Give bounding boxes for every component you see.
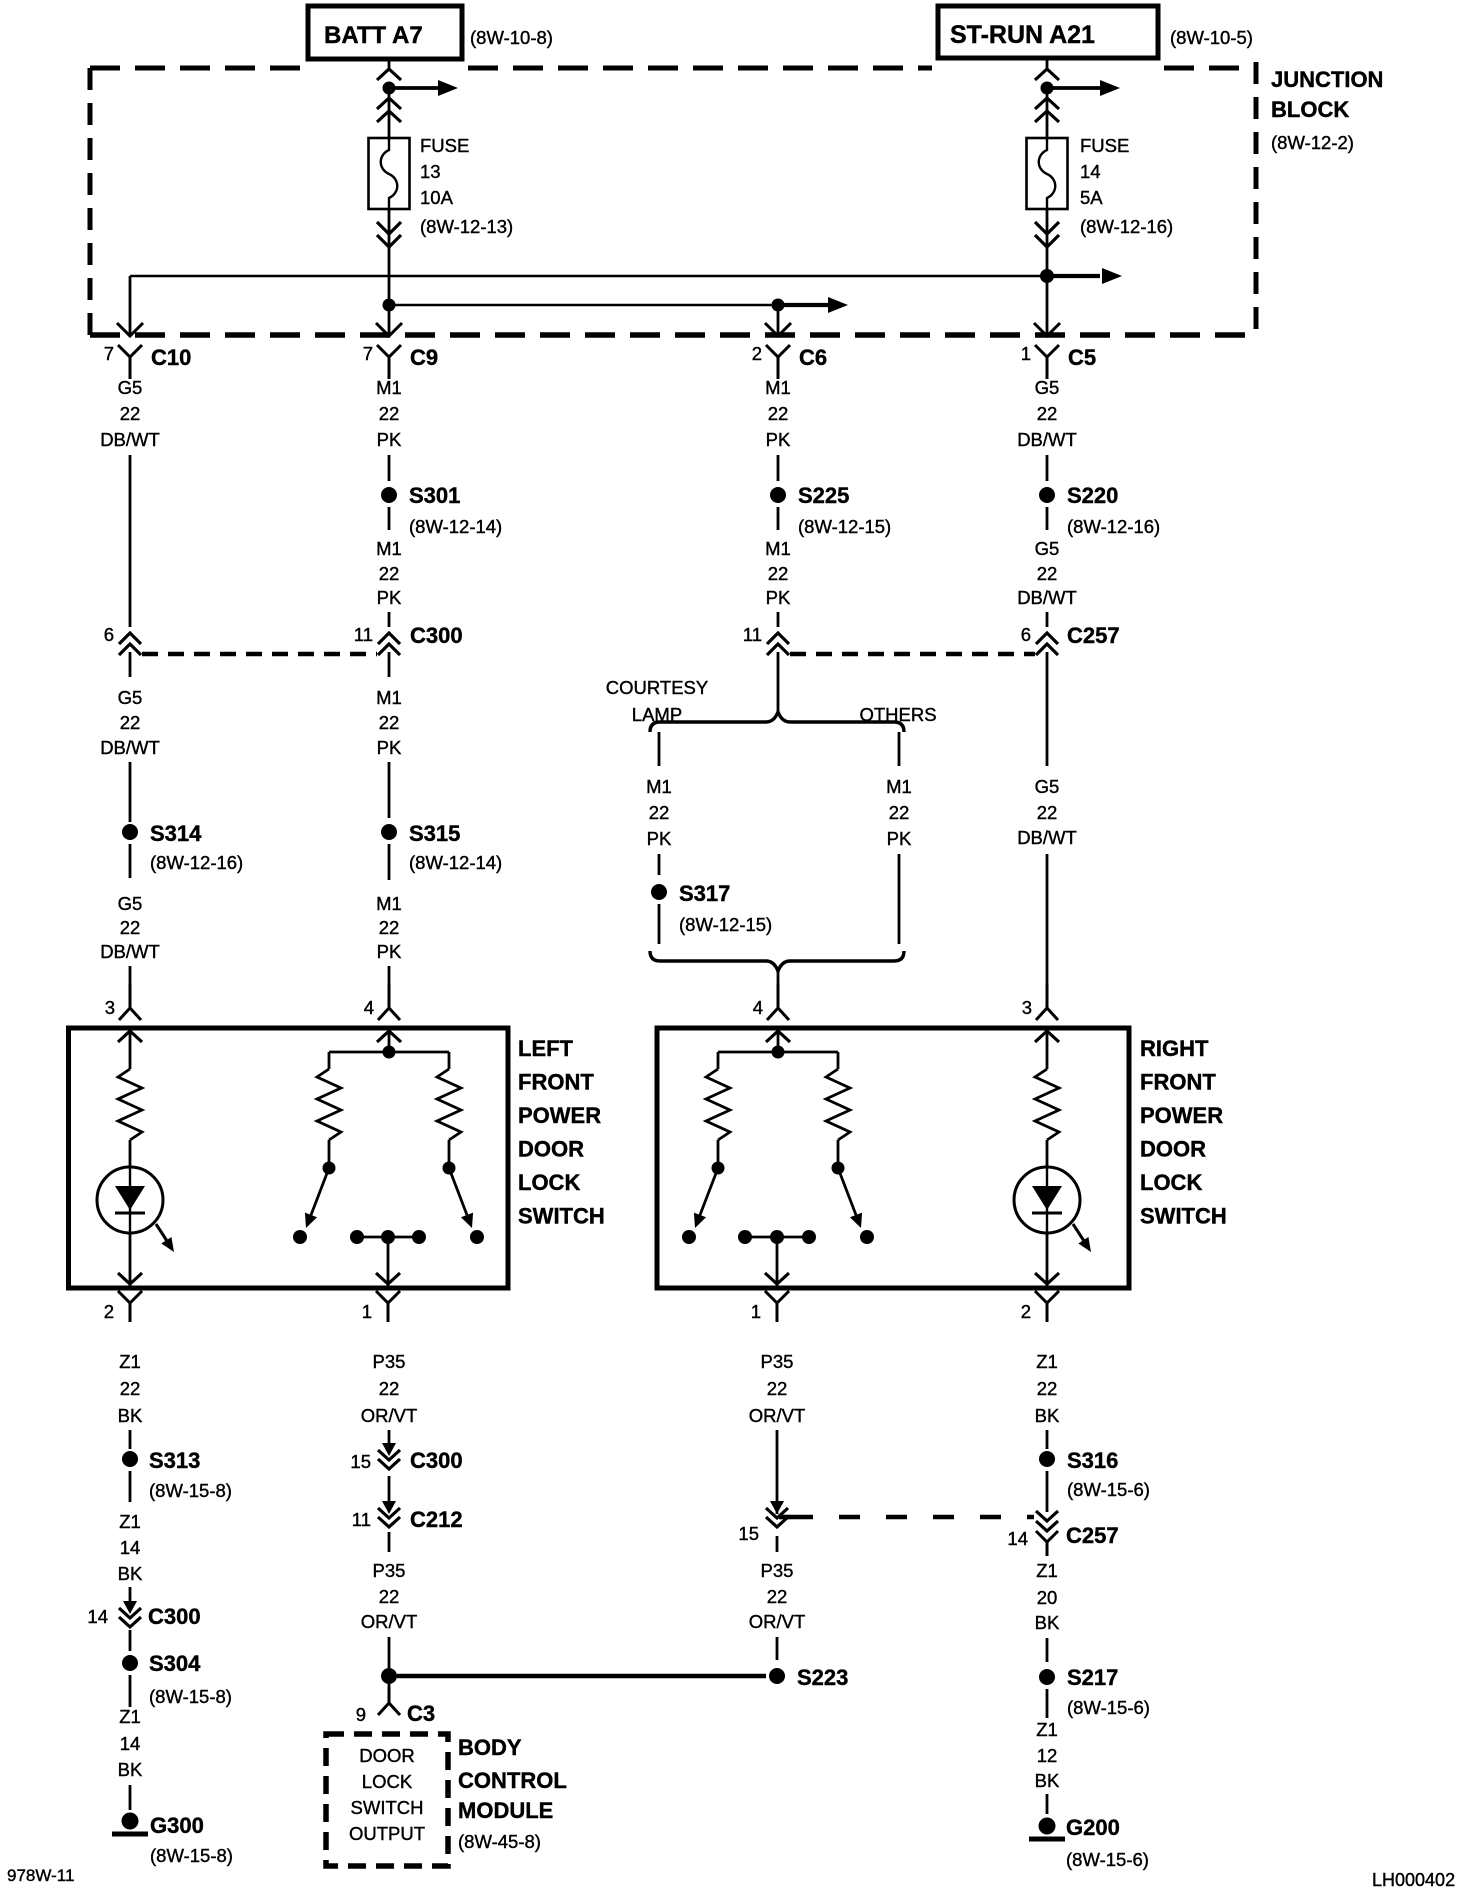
svg-text:G5: G5 bbox=[1035, 377, 1060, 398]
svg-text:BATT A7: BATT A7 bbox=[324, 22, 423, 49]
svg-text:OR/VT: OR/VT bbox=[361, 1405, 418, 1426]
svg-text:S217: S217 bbox=[1067, 1665, 1118, 1690]
label COURTESY LAMP bbox=[606, 677, 708, 725]
feed line y276 from col A to node D2 bbox=[130, 275, 1047, 278]
wire to node BCM bbox=[388, 1637, 391, 1668]
wire fuse 14 down to node D2 bbox=[1046, 209, 1049, 276]
svg-text:4: 4 bbox=[753, 997, 763, 1018]
svg-text:G5: G5 bbox=[118, 893, 143, 914]
svg-text:22: 22 bbox=[649, 802, 670, 823]
svg-text:(8W-15-8): (8W-15-8) bbox=[150, 1845, 233, 1866]
wire to connector C300-11 bbox=[388, 612, 391, 627]
ground G300 bbox=[112, 1813, 233, 1867]
svg-text:G5: G5 bbox=[1035, 776, 1060, 797]
svg-text:P35: P35 bbox=[761, 1560, 794, 1581]
splice S313 bbox=[122, 1451, 138, 1467]
connector C6 pin 2 bbox=[752, 343, 827, 379]
contact dot far-left right box bbox=[682, 1230, 696, 1244]
door lock switch output label bbox=[349, 1745, 425, 1844]
resistor lamp left box bbox=[118, 1069, 142, 1140]
switch left resistor branch right box bbox=[717, 1052, 720, 1069]
wire S313 down bbox=[129, 1471, 132, 1502]
wire col B down to C9 bbox=[388, 305, 391, 335]
left front power door lock switch box bbox=[69, 1028, 509, 1288]
wire to pivot right right box bbox=[837, 1140, 840, 1163]
svg-text:POWER: POWER bbox=[518, 1103, 601, 1128]
chevron into junction block col B bbox=[377, 69, 401, 80]
switch node dot left box bbox=[383, 1046, 396, 1059]
pin 3 connector left box bbox=[105, 984, 141, 1020]
connector C9 pin 7 bbox=[363, 343, 438, 379]
arrowhead into C10 bbox=[117, 323, 143, 336]
wire node D1 to fuse 14 bbox=[1046, 88, 1049, 138]
svg-text:PK: PK bbox=[647, 828, 672, 849]
svg-text:C6: C6 bbox=[799, 345, 827, 370]
wire C212 down bbox=[388, 1532, 391, 1552]
chevron pin1 inside right box bbox=[765, 1273, 789, 1284]
pivot dot right right box bbox=[832, 1162, 845, 1175]
wire to connector 11 bbox=[777, 612, 780, 627]
wire to connector C300-14 bbox=[129, 1587, 132, 1603]
resistor lamp right box bbox=[1035, 1069, 1059, 1140]
svg-text:(8W-12-16): (8W-12-16) bbox=[1067, 516, 1160, 537]
chevron pin4 inside left box bbox=[377, 1031, 401, 1042]
wire connector 15 down bbox=[776, 1536, 779, 1552]
svg-text:C10: C10 bbox=[151, 345, 191, 370]
svg-text:22: 22 bbox=[767, 1378, 788, 1399]
wire to pivot right bbox=[448, 1140, 451, 1163]
branch brace top bbox=[650, 712, 904, 732]
wire S220 down bbox=[1046, 507, 1049, 530]
svg-text:(8W-12-15): (8W-12-15) bbox=[679, 914, 772, 935]
svg-text:22: 22 bbox=[1037, 563, 1058, 584]
wire resistor to lamp bbox=[129, 1140, 132, 1167]
connector 11 col C bbox=[743, 624, 789, 655]
splice S223 bbox=[769, 1668, 785, 1684]
svg-text:22: 22 bbox=[1037, 403, 1058, 424]
wire to splice S217 bbox=[1046, 1638, 1049, 1662]
wire S314 down bbox=[129, 844, 132, 878]
wire pin2 right box to splice S316 bbox=[1046, 1430, 1049, 1449]
wire C10 to connector 6 bbox=[129, 455, 132, 627]
wire node BCM to C3 bbox=[388, 1684, 391, 1703]
connector 15 of C300 bottom bbox=[350, 1443, 462, 1473]
svg-text:(8W-10-5): (8W-10-5) bbox=[1170, 27, 1253, 48]
svg-text:DOOR: DOOR bbox=[518, 1137, 584, 1162]
svg-text:PK: PK bbox=[766, 429, 791, 450]
svg-text:5A: 5A bbox=[1080, 187, 1103, 208]
svg-text:DB/WT: DB/WT bbox=[100, 429, 160, 450]
node D2 dot bbox=[1040, 269, 1054, 283]
svg-text:6: 6 bbox=[1021, 624, 1031, 645]
svg-text:1: 1 bbox=[1021, 343, 1031, 364]
svg-text:S223: S223 bbox=[797, 1665, 848, 1690]
centre contact row right box bbox=[738, 1230, 816, 1244]
resistor switch-left bbox=[317, 1069, 341, 1140]
svg-text:2: 2 bbox=[104, 1301, 114, 1322]
wire branch merge to pin 4 bbox=[777, 971, 780, 1007]
fuse 13 labels bbox=[420, 135, 513, 237]
svg-text:LOCK: LOCK bbox=[1140, 1170, 1202, 1195]
connector 6 of C257 bbox=[1021, 623, 1120, 655]
svg-text:G300: G300 bbox=[150, 1813, 204, 1838]
svg-text:FUSE: FUSE bbox=[420, 135, 469, 156]
svg-text:ST-RUN A21: ST-RUN A21 bbox=[950, 21, 1095, 49]
svg-text:(8W-12-2): (8W-12-2) bbox=[1271, 132, 1354, 153]
svg-text:BK: BK bbox=[118, 1563, 143, 1584]
resistor switch-right bbox=[437, 1069, 461, 1140]
wire to ground G200 bbox=[1046, 1794, 1049, 1814]
svg-text:BLOCK: BLOCK bbox=[1271, 97, 1349, 122]
fuse 14 labels bbox=[1080, 135, 1173, 237]
svg-text:S314: S314 bbox=[150, 821, 202, 846]
svg-text:P35: P35 bbox=[373, 1560, 406, 1581]
svg-text:PK: PK bbox=[887, 828, 912, 849]
node B1 dot bbox=[383, 82, 396, 95]
wire S225 down bbox=[777, 507, 780, 530]
wire C300-14 to splice S304 bbox=[129, 1630, 132, 1651]
ground G200 bbox=[1029, 1815, 1149, 1870]
switch right resistor branch bbox=[448, 1052, 451, 1069]
svg-text:14: 14 bbox=[1080, 161, 1101, 182]
pin 1 connector right box bbox=[751, 1291, 789, 1322]
wire col A down to C10 bbox=[129, 276, 132, 335]
dashed connector link row C-D bbox=[790, 652, 1035, 657]
wire to splice S314 bbox=[129, 762, 132, 822]
wire to right box pin 3 bbox=[1046, 854, 1049, 1007]
wire S316 down bbox=[1046, 1471, 1049, 1512]
chevron pin4 inside right box bbox=[766, 1031, 790, 1042]
svg-text:G5: G5 bbox=[118, 687, 143, 708]
svg-text:(8W-12-15): (8W-12-15) bbox=[798, 516, 891, 537]
wire C300 down bbox=[388, 652, 391, 677]
svg-text:1: 1 bbox=[751, 1301, 761, 1322]
svg-text:S315: S315 bbox=[409, 821, 460, 846]
svg-text:LOCK: LOCK bbox=[362, 1771, 413, 1792]
dashed connector link C10-C300 row bbox=[142, 652, 377, 657]
svg-text:M1: M1 bbox=[376, 538, 402, 559]
contact dot far-right bbox=[470, 1230, 484, 1244]
svg-text:(8W-15-6): (8W-15-6) bbox=[1067, 1697, 1150, 1718]
svg-text:M1: M1 bbox=[646, 776, 672, 797]
switch right resistor branch right box bbox=[837, 1052, 840, 1069]
wire pin2 to splice S313 bbox=[129, 1430, 132, 1449]
svg-text:S317: S317 bbox=[679, 881, 730, 906]
wire pin4 to switch node bbox=[388, 1030, 391, 1052]
junction block dashed border bbox=[90, 62, 1256, 335]
svg-text:978W-11: 978W-11 bbox=[7, 1866, 74, 1885]
wire pin3 to resistor right box bbox=[1046, 1030, 1049, 1069]
power feed box BATT A7 bbox=[308, 6, 462, 59]
wire C6 to splice S225 bbox=[777, 455, 780, 481]
branch arrow right from node D1 bbox=[1047, 86, 1100, 90]
svg-text:DB/WT: DB/WT bbox=[100, 941, 160, 962]
chevron into junction block col D bbox=[1035, 69, 1059, 80]
svg-text:C212: C212 bbox=[410, 1507, 463, 1532]
feed arrow right from node D2 bbox=[1047, 274, 1100, 278]
svg-text:3: 3 bbox=[1022, 997, 1032, 1018]
svg-text:BK: BK bbox=[1035, 1405, 1060, 1426]
arrowhead into C5 bbox=[1034, 323, 1060, 336]
svg-text:DB/WT: DB/WT bbox=[100, 737, 160, 758]
node D1 dot bbox=[1041, 82, 1054, 95]
svg-text:PK: PK bbox=[377, 587, 402, 608]
svg-text:LH000402: LH000402 bbox=[1372, 1870, 1455, 1890]
svg-text:(8W-12-14): (8W-12-14) bbox=[409, 516, 502, 537]
wire S217 down bbox=[1046, 1689, 1049, 1718]
splice S317 bbox=[651, 884, 667, 900]
svg-text:BODY: BODY bbox=[458, 1735, 522, 1760]
wire to pivot left bbox=[328, 1140, 331, 1163]
svg-text:2: 2 bbox=[1021, 1301, 1031, 1322]
svg-text:Z1: Z1 bbox=[1036, 1560, 1058, 1581]
svg-text:Z1: Z1 bbox=[1036, 1719, 1058, 1740]
body control module dashed box bbox=[326, 1734, 448, 1866]
right box title bbox=[1140, 1036, 1227, 1229]
wire to splice S315 bbox=[388, 762, 391, 818]
wire ST-RUN A21 down to junction block bbox=[1046, 58, 1049, 70]
wire BATT A7 down to junction block bbox=[388, 59, 391, 70]
svg-text:(8W-12-14): (8W-12-14) bbox=[409, 852, 502, 873]
svg-text:22: 22 bbox=[1037, 1378, 1058, 1399]
svg-text:C9: C9 bbox=[410, 345, 438, 370]
wire C257 down bbox=[1046, 652, 1049, 766]
resistor switch-right right box bbox=[826, 1069, 850, 1140]
svg-text:C257: C257 bbox=[1066, 1523, 1119, 1548]
wire pin1 to connector C300-15 bbox=[388, 1430, 391, 1446]
svg-text:S225: S225 bbox=[798, 483, 849, 508]
wire C9 to splice S301 bbox=[388, 455, 391, 481]
svg-text:S304: S304 bbox=[149, 1651, 201, 1676]
wire connector 11 down to branch bbox=[777, 652, 780, 713]
wire branch right down bbox=[898, 854, 901, 944]
svg-text:22: 22 bbox=[379, 403, 400, 424]
wire pin1 right box down bbox=[776, 1430, 779, 1514]
svg-text:(8W-10-8): (8W-10-8) bbox=[470, 27, 553, 48]
svg-text:11: 11 bbox=[352, 1509, 371, 1530]
connector 15 col C bbox=[738, 1501, 788, 1544]
svg-text:22: 22 bbox=[768, 403, 789, 424]
pin 1 connector left box bbox=[362, 1291, 400, 1322]
feed line y305 node B2 to node C1 bbox=[389, 304, 778, 307]
svg-text:C257: C257 bbox=[1067, 623, 1120, 648]
wire col D down to C5 bbox=[1046, 276, 1049, 335]
svg-text:11: 11 bbox=[354, 624, 373, 645]
svg-text:14: 14 bbox=[87, 1606, 108, 1627]
wire C5 to splice S220 bbox=[1046, 455, 1049, 481]
switch branch bar left box bbox=[329, 1051, 449, 1054]
svg-text:RIGHT: RIGHT bbox=[1140, 1036, 1209, 1061]
svg-text:22: 22 bbox=[120, 1378, 141, 1399]
double chevron col B below fuse bbox=[377, 222, 401, 234]
pivot dot left right box bbox=[712, 1162, 725, 1175]
svg-text:(8W-15-6): (8W-15-6) bbox=[1066, 1849, 1149, 1870]
wire to splice S317 bbox=[658, 854, 661, 875]
splice S315 bbox=[381, 824, 397, 840]
svg-text:POWER: POWER bbox=[1140, 1103, 1223, 1128]
svg-text:(8W-15-8): (8W-15-8) bbox=[149, 1480, 232, 1501]
svg-text:22: 22 bbox=[120, 917, 141, 938]
svg-text:1: 1 bbox=[362, 1301, 372, 1322]
svg-text:M1: M1 bbox=[886, 776, 912, 797]
splice S220 bbox=[1039, 487, 1055, 503]
svg-text:S313: S313 bbox=[149, 1448, 200, 1473]
resistor switch-left right box bbox=[706, 1069, 730, 1140]
svg-text:PK: PK bbox=[766, 587, 791, 608]
pin 2 connector right box bbox=[1021, 1291, 1059, 1322]
connector C10 pin 7 bbox=[104, 343, 192, 379]
svg-text:CONTROL: CONTROL bbox=[458, 1768, 567, 1793]
svg-text:DOOR: DOOR bbox=[359, 1745, 415, 1766]
splice S304 bbox=[122, 1655, 138, 1671]
wire to ground G300 bbox=[129, 1785, 132, 1810]
connector C3 pin 9 bbox=[356, 1687, 435, 1726]
fuse 13 bbox=[369, 138, 410, 209]
svg-text:22: 22 bbox=[768, 563, 789, 584]
wire centre contact to pin1 bbox=[387, 1237, 390, 1286]
wire lamp to pin2 bbox=[129, 1233, 132, 1286]
splice S314 bbox=[122, 824, 138, 840]
wire to connector C257-6 bbox=[1046, 612, 1049, 627]
svg-text:22: 22 bbox=[379, 917, 400, 938]
svg-text:C5: C5 bbox=[1068, 345, 1096, 370]
svg-text:M1: M1 bbox=[376, 377, 402, 398]
svg-text:Z1: Z1 bbox=[119, 1351, 141, 1372]
pivot dot right bbox=[443, 1162, 456, 1175]
svg-text:OUTPUT: OUTPUT bbox=[349, 1823, 425, 1844]
splice S316 bbox=[1039, 1451, 1055, 1467]
wire C300-15 to C212-11 bbox=[388, 1476, 391, 1503]
wire col C down to C6 bbox=[777, 305, 780, 335]
svg-text:PK: PK bbox=[377, 429, 402, 450]
svg-text:22: 22 bbox=[120, 403, 141, 424]
connector C5 pin 1 bbox=[1021, 343, 1096, 379]
connector 14 of C257 bottom bbox=[1007, 1511, 1118, 1556]
svg-text:14: 14 bbox=[1007, 1528, 1028, 1549]
svg-text:COURTESY: COURTESY bbox=[606, 677, 708, 698]
wire pin3 to resistor bbox=[129, 1030, 132, 1069]
svg-text:DB/WT: DB/WT bbox=[1017, 587, 1077, 608]
svg-text:OR/VT: OR/VT bbox=[749, 1611, 806, 1632]
svg-text:S316: S316 bbox=[1067, 1448, 1118, 1473]
chevron pin2 inside right box bbox=[1035, 1273, 1059, 1284]
contact dot far-left bbox=[293, 1230, 307, 1244]
wire S317 down bbox=[658, 904, 661, 944]
splice S225 bbox=[770, 487, 786, 503]
branch brace bottom bbox=[650, 951, 904, 971]
svg-text:BK: BK bbox=[118, 1759, 143, 1780]
svg-text:22: 22 bbox=[1037, 802, 1058, 823]
wire to splice S223 bbox=[776, 1637, 779, 1660]
switch left resistor branch bbox=[328, 1052, 331, 1069]
junction block label bbox=[1271, 67, 1383, 153]
wire centre contact to pin1 right box bbox=[776, 1237, 779, 1286]
svg-text:3: 3 bbox=[105, 997, 115, 1018]
svg-text:15: 15 bbox=[350, 1451, 371, 1472]
wire pin4 to switch node right bbox=[777, 1030, 780, 1052]
svg-text:FUSE: FUSE bbox=[1080, 135, 1129, 156]
svg-text:22: 22 bbox=[379, 563, 400, 584]
svg-text:10A: 10A bbox=[420, 187, 454, 208]
svg-text:FRONT: FRONT bbox=[1140, 1070, 1216, 1095]
switch arm right right box bbox=[838, 1168, 856, 1215]
svg-text:C3: C3 bbox=[407, 1701, 435, 1726]
svg-text:DB/WT: DB/WT bbox=[1017, 429, 1077, 450]
contact dot far-right right box bbox=[860, 1230, 874, 1244]
svg-text:(8W-15-6): (8W-15-6) bbox=[1067, 1479, 1150, 1500]
power feed box ST-RUN A21 bbox=[938, 6, 1158, 58]
svg-text:MODULE: MODULE bbox=[458, 1798, 553, 1823]
svg-text:14: 14 bbox=[120, 1733, 141, 1754]
pin 4 connector left box bbox=[364, 984, 400, 1020]
body control module label bbox=[458, 1735, 567, 1852]
switch arm right bbox=[449, 1168, 467, 1215]
arrowhead into C9 bbox=[376, 323, 402, 336]
svg-text:22: 22 bbox=[767, 1586, 788, 1607]
svg-text:S301: S301 bbox=[409, 483, 460, 508]
svg-text:OR/VT: OR/VT bbox=[749, 1405, 806, 1426]
svg-text:LEFT: LEFT bbox=[518, 1036, 574, 1061]
svg-text:FRONT: FRONT bbox=[518, 1070, 594, 1095]
svg-text:Z1: Z1 bbox=[1036, 1351, 1058, 1372]
svg-text:7: 7 bbox=[104, 343, 114, 364]
fuse 14 bbox=[1027, 138, 1068, 209]
wire connector 6 down bbox=[129, 652, 132, 677]
chevron pin3 inside left box bbox=[118, 1031, 142, 1042]
svg-text:DB/WT: DB/WT bbox=[1017, 827, 1077, 848]
node BCM dot bbox=[381, 1668, 397, 1684]
pin 3 connector right box bbox=[1022, 984, 1058, 1020]
wire S304 down bbox=[129, 1675, 132, 1707]
svg-text:2: 2 bbox=[752, 343, 762, 364]
svg-text:BK: BK bbox=[1035, 1612, 1060, 1633]
wire to pivot left right box bbox=[717, 1140, 720, 1163]
left box title bbox=[518, 1036, 605, 1229]
wire node B1 to fuse 13 bbox=[388, 88, 391, 138]
chevron pin3 inside right box bbox=[1035, 1031, 1059, 1042]
svg-text:C300: C300 bbox=[410, 1448, 463, 1473]
double chevron col B above fuse bbox=[377, 98, 401, 109]
svg-text:G200: G200 bbox=[1066, 1815, 1120, 1840]
svg-text:M1: M1 bbox=[765, 377, 791, 398]
svg-text:M1: M1 bbox=[376, 893, 402, 914]
illumination lamp right box bbox=[1014, 1167, 1080, 1233]
switch node dot right box bbox=[772, 1046, 785, 1059]
svg-text:M1: M1 bbox=[376, 687, 402, 708]
connector 14 of C300 bottom bbox=[87, 1601, 200, 1629]
wire branch right stub bbox=[898, 732, 901, 766]
svg-text:DOOR: DOOR bbox=[1140, 1137, 1206, 1162]
svg-text:SWITCH: SWITCH bbox=[351, 1797, 424, 1818]
wire resistor to lamp right box bbox=[1046, 1140, 1049, 1167]
svg-text:4: 4 bbox=[364, 997, 374, 1018]
feed line to splice S223 bbox=[397, 1674, 766, 1679]
svg-text:22: 22 bbox=[889, 802, 910, 823]
feed arrow right from node C1 bbox=[778, 303, 828, 307]
svg-text:Z1: Z1 bbox=[119, 1706, 141, 1727]
switch branch bar right box bbox=[718, 1051, 838, 1054]
node B2 dot bbox=[383, 299, 396, 312]
branch arrow right from node B1 bbox=[389, 86, 440, 90]
wire to left box pin 3 bbox=[129, 966, 132, 1007]
svg-text:P35: P35 bbox=[373, 1351, 406, 1372]
centre contact row left box bbox=[350, 1230, 426, 1244]
svg-text:13: 13 bbox=[420, 161, 441, 182]
svg-text:SWITCH: SWITCH bbox=[1140, 1204, 1227, 1229]
svg-text:OR/VT: OR/VT bbox=[361, 1611, 418, 1632]
svg-text:PK: PK bbox=[377, 737, 402, 758]
svg-text:14: 14 bbox=[120, 1537, 141, 1558]
